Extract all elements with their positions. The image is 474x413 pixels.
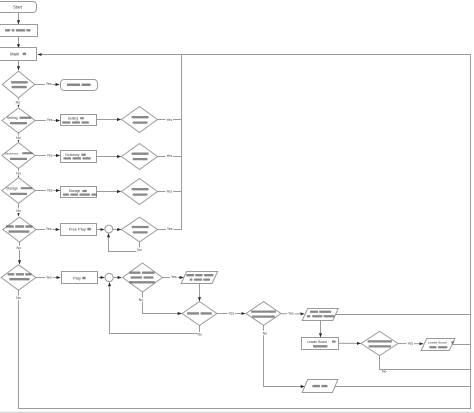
svg-text:Storage: Storage [6,186,18,190]
svg-text:No: No [197,333,202,337]
svg-text:Yes: Yes [47,153,53,157]
svg-text:Leader Board: Leader Board [428,341,447,345]
svg-text:Yes: Yes [46,275,52,279]
label Yes [45,82,53,87]
svg-text:Yes: Yes [167,227,173,231]
label Yes [287,311,295,316]
label Yes [45,227,53,232]
terminator Program End [61,80,98,91]
svg-text:No: No [16,101,21,105]
label No [16,246,22,251]
decision D3 Dictionary-button [2,143,35,169]
wire D4->D5 [18,203,20,216]
terminator Start [0,2,37,13]
wire mid return bus [181,54,183,230]
label No [137,248,143,253]
wire P1->D8 [199,283,201,301]
label Yes [228,311,236,316]
svg-text:No: No [382,370,387,374]
label Yes [166,227,174,232]
io P2 score-output-detail-check [302,309,338,321]
wire D10-no->right-bus [380,356,471,370]
wire P2->right-bus [336,314,471,316]
process Loading/Stage screen box [0,25,38,37]
process Leader Board scene box [302,338,339,350]
wire C2->D7 [113,277,121,279]
svg-text:No: No [16,172,21,176]
svg-text:Yes: Yes [47,118,53,122]
wire D9-no->P4 [264,326,305,387]
label storage-design-change [63,193,69,195]
label program-end [67,84,80,86]
decision D2 Setting-button [2,108,35,133]
label name-upload [429,346,436,348]
process Dictionary scene box [61,151,97,163]
decision D3m exit-button [122,144,158,170]
decision D10 player-record-check [361,331,398,355]
wire right return bus [470,54,472,409]
wire FreePlay->C1 [97,229,105,231]
wire D9->P2 [281,313,305,315]
decision D5 free-play-mode [3,217,36,242]
svg-text:Yes: Yes [166,189,172,193]
io P4 score-output [302,380,338,393]
label No [16,171,22,176]
label Yes [407,341,415,346]
decision D4 Storage-button [2,178,35,204]
label No [262,331,268,336]
label No [16,296,22,301]
decision D1 exit-button-pressed [2,71,34,98]
wire Main->D1 [18,60,20,70]
label Yes [46,188,54,193]
wire D2->D3 [18,132,20,142]
wire D3m->bus [158,156,182,158]
svg-text:Start: Start [13,4,23,9]
decision D6 song-play-mode [1,265,36,291]
svg-text:Dictionary: Dictionary [65,153,80,157]
svg-text:No: No [16,246,21,250]
label Yes [170,275,178,280]
process Play scene box [62,272,98,284]
wire D6-no->right-bus bottom [19,290,471,409]
wire D2m->bus [158,119,182,121]
svg-text:Yes: Yes [46,227,52,231]
wire D8-no-loop->C2 [110,283,200,334]
svg-text:Setting: Setting [68,116,78,120]
wire LBbox->D10 [339,342,361,344]
wire Start->Loading [18,12,20,24]
wire P2->LBbox [320,320,322,337]
decision D5m exit-button [122,217,158,242]
label collected-items-check [63,157,71,159]
label No [138,297,144,302]
label scene-hangul [23,53,27,56]
label Main [10,51,20,56]
wire Loading->Main [18,36,20,48]
svg-text:Yes: Yes [171,275,177,279]
svg-text:Yes: Yes [47,188,53,192]
wire D5->D6 [19,241,21,264]
svg-text:No: No [16,296,21,300]
svg-text:Main: Main [10,51,20,56]
wire Play->C2 [97,277,104,279]
wire D5m->bus [158,229,181,231]
wire return-to-Main top bus [38,54,471,56]
wire D6->Play [36,277,60,279]
label Yes [166,189,174,194]
wire D10->P3 [398,343,423,345]
label Yes [46,153,54,158]
process Free Play scene box [61,224,97,236]
label name-input [313,345,328,347]
svg-text:Yes: Yes [166,154,172,158]
process Setting scene box [61,115,97,126]
label loading-and-stage-screen [5,29,10,31]
svg-text:Dictionary: Dictionary [5,151,19,155]
wire D1->D2 [18,97,20,107]
svg-text:Yes: Yes [228,311,234,315]
wire D2->SettingScene [35,120,60,122]
label No [382,370,387,374]
io P1 sound-effect-and-score [181,272,218,284]
svg-text:Free Play: Free Play [69,227,86,232]
label No [15,100,21,105]
page bottom shadow [0,412,474,413]
svg-text:No: No [137,248,142,252]
svg-text:Yes: Yes [46,82,52,86]
wire StorageScene->D4m [97,191,121,193]
wire D5m-no-loop->C1 [109,234,140,252]
label Yes [166,118,174,123]
label volume-shop-adjust [62,121,70,123]
decision D2m exit-button [122,107,158,133]
decision D4m exit-button [122,179,158,205]
svg-text:Setting: Setting [7,116,18,120]
wire D3->D4 [18,168,20,177]
wire P4->right-bus [335,386,470,388]
io P3 leaderboard-upload [421,339,455,351]
svg-text:Play: Play [73,275,81,280]
wire C1->D5m [113,229,121,231]
wire D1->ProgramEnd [35,84,60,86]
label No [197,332,203,337]
svg-text:No: No [263,331,268,335]
wire D4m->bus [158,191,182,193]
decision D8 song-finished [182,302,217,326]
label No [16,136,22,141]
svg-text:No: No [16,209,21,213]
connector C1 [105,225,113,233]
svg-text:No: No [139,298,144,302]
decision D7 played-note-on-timing [123,263,163,292]
wire D4->StorageScene [35,190,60,192]
wire P3->right-bus [452,344,470,346]
label No [16,209,22,214]
label Yes [46,117,54,122]
svg-text:Leader Board: Leader Board [307,340,327,344]
wire D7-no->D8 [143,293,182,314]
decision D9 player-criteria-met [246,302,281,326]
label Yes [166,153,174,158]
svg-text:Storage: Storage [69,189,81,193]
svg-text:Yes: Yes [407,342,413,346]
wire D3->DictScene [35,155,60,157]
svg-text:Yes: Yes [288,312,294,316]
wire SettingScene->D2m [97,119,121,121]
wire DictScene->D3m [97,156,121,158]
process Storage scene box [61,187,97,198]
wire D7->P1 [162,277,184,279]
label Yes [45,275,53,280]
connector C2 [105,273,113,281]
svg-text:Yes: Yes [166,118,172,122]
wire D8->D9 [217,313,245,315]
wire D5->FreePlay [36,229,60,231]
process Main scene box [0,48,37,61]
svg-text:No: No [16,136,21,140]
